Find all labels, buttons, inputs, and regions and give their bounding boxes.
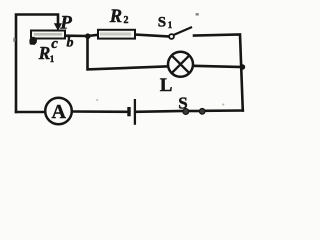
svg-text:A: A — [51, 101, 66, 123]
svg-text:P: P — [59, 12, 72, 33]
svg-text:S: S — [178, 93, 187, 112]
svg-text:1: 1 — [168, 20, 173, 30]
svg-text:S: S — [158, 14, 166, 30]
svg-text:c: c — [51, 36, 58, 52]
svg-text:2: 2 — [124, 15, 129, 26]
svg-text:R: R — [38, 43, 51, 63]
svg-text:R: R — [109, 7, 122, 27]
svg-text:1: 1 — [50, 54, 55, 64]
svg-text:L: L — [160, 75, 173, 96]
svg-text:b: b — [67, 36, 74, 51]
